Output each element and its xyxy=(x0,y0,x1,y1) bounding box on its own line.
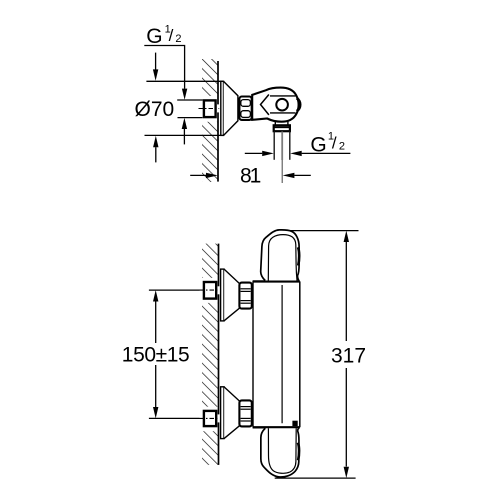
svg-text:/: / xyxy=(169,26,174,45)
flow button (black square) xyxy=(292,421,297,427)
white halo around upper wall nut xyxy=(196,278,220,303)
leader line from G1/2 label down to wall nut xyxy=(144,46,184,89)
150 dimension bottom arrow xyxy=(153,407,158,418)
thermostat knob (top) inner contour xyxy=(268,235,297,281)
lower wall square nut xyxy=(204,411,216,426)
wall hatch (bottom view) xyxy=(202,244,219,465)
hose centerline xyxy=(281,132,283,161)
valve body outline xyxy=(252,88,298,122)
317 extension line bottom xyxy=(275,477,356,479)
thermostat knob grip mark xyxy=(298,247,299,265)
lower union centerline xyxy=(149,417,219,419)
upper escutcheon cone xyxy=(224,269,239,320)
arrow down to nut top xyxy=(182,89,187,100)
arrow up to nut bottom xyxy=(182,118,187,145)
lower escutcheon plate xyxy=(221,387,224,439)
wall hatch (top view) xyxy=(202,59,218,182)
317 dimension bottom arrow xyxy=(344,467,349,478)
outlet nut xyxy=(274,125,290,131)
escutcheon cone xyxy=(224,82,238,136)
body inner contour line xyxy=(281,285,283,423)
mixer body xyxy=(253,281,300,427)
white halo around lower wall nut xyxy=(196,407,220,432)
lower hex nut xyxy=(239,400,251,426)
thermostat knob (top) outer xyxy=(261,230,299,281)
wall union square nut xyxy=(204,100,216,117)
hex adapter xyxy=(239,97,251,120)
label G 1/2 (wall thread, top-left) xyxy=(146,23,181,47)
left arrow to hose xyxy=(245,151,274,156)
wall surface line (top view) xyxy=(217,61,219,182)
317 extension line top xyxy=(291,230,359,232)
white halo around wall nut xyxy=(196,96,220,122)
nut extension line bottom xyxy=(178,117,203,119)
leader of right G1/2 with arrow to hose xyxy=(290,151,350,156)
150 dimension top arrow xyxy=(153,290,158,301)
valve inner circle xyxy=(276,99,288,111)
dimension 81 left arrow xyxy=(190,173,218,178)
svg-text:G: G xyxy=(146,25,162,48)
nut extension line top xyxy=(177,99,203,101)
nut centerline (dash-dot) xyxy=(199,108,220,110)
317 dimension top arrow xyxy=(344,231,349,242)
outlet stub xyxy=(275,121,288,125)
escutcheon diameter ext line (bottom) xyxy=(145,134,224,136)
escutcheon plate xyxy=(221,81,224,135)
svg-text:2: 2 xyxy=(175,33,181,45)
wall surface line (bottom view) xyxy=(218,244,220,465)
dimension 150±15 line xyxy=(155,301,157,408)
svg-text:81: 81 xyxy=(240,165,261,188)
valve cap right edge (thick) xyxy=(297,98,300,111)
shut-off knob (bottom) outer xyxy=(261,428,299,477)
svg-text:Ø70: Ø70 xyxy=(135,98,175,121)
svg-text:2: 2 xyxy=(339,140,345,152)
shut-off knob grip mark xyxy=(298,443,299,461)
shut-off knob (bottom) inner contour xyxy=(268,428,296,473)
upper union centerline xyxy=(149,289,219,291)
dimension 81 right arrow xyxy=(283,173,311,178)
label G 1/2 (hose thread, right) xyxy=(310,131,345,157)
dimension 317 line xyxy=(345,242,347,467)
upper hex nut xyxy=(239,283,251,309)
valve cap top chord xyxy=(270,95,295,97)
shower hose sides xyxy=(274,131,290,159)
upper wall square nut xyxy=(204,282,216,299)
valve cap bottom chord xyxy=(270,112,296,114)
svg-text:/: / xyxy=(332,133,337,152)
arrow down to escutcheon top xyxy=(153,53,158,81)
svg-text:317: 317 xyxy=(331,344,366,367)
arrow up to escutcheon bottom xyxy=(153,136,158,163)
valve cap left notch xyxy=(261,94,270,115)
hose centerline extension xyxy=(281,160,283,183)
upper escutcheon plate xyxy=(221,269,224,321)
svg-text:150±15: 150±15 xyxy=(122,343,190,366)
lower escutcheon cone xyxy=(224,387,239,438)
escutcheon diameter ext line (top) xyxy=(146,80,223,82)
